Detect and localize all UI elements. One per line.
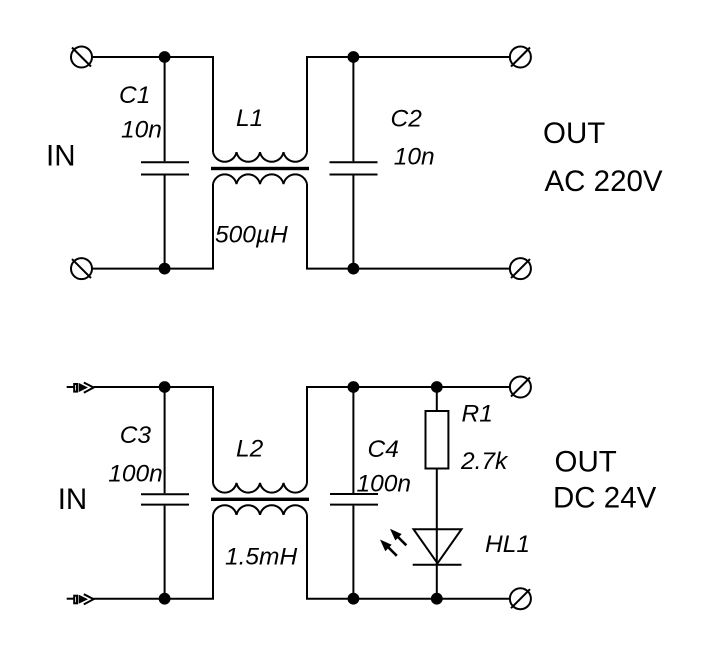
LED HL1	[413, 529, 462, 565]
junction node	[159, 51, 171, 63]
wire	[92, 57, 213, 152]
svg-text:10n: 10n	[394, 143, 435, 170]
svg-text:OUT: OUT	[555, 446, 617, 479]
svg-text:100n: 100n	[108, 461, 163, 488]
wire	[92, 184, 213, 269]
wire	[307, 57, 510, 152]
terminal XT3 bottom-left	[71, 258, 92, 279]
wire	[94, 387, 213, 483]
wire	[307, 387, 510, 483]
junction node	[159, 593, 171, 605]
svg-text:DC 24V: DC 24V	[553, 482, 657, 515]
LED emission arrow 1	[380, 540, 397, 556]
inductor L1 winding 1	[213, 152, 307, 162]
inductor L2 winding 2	[213, 505, 307, 515]
wire	[307, 184, 510, 269]
svg-text:IN: IN	[58, 483, 87, 516]
capacitor C3	[141, 387, 189, 599]
terminal XT2 top-right	[510, 47, 531, 68]
svg-text:10n: 10n	[121, 116, 162, 143]
svg-text:100n: 100n	[357, 471, 412, 498]
junction node	[348, 51, 360, 63]
resistor R1	[426, 387, 449, 599]
junction node	[348, 381, 360, 393]
wire	[307, 515, 510, 599]
terminal XT5 top-right	[510, 377, 531, 398]
svg-text:L2: L2	[236, 436, 264, 463]
junction node	[159, 381, 171, 393]
capacitor C2	[330, 57, 378, 269]
svg-text:AC 220V: AC 220V	[545, 165, 663, 198]
inductor L1 core	[211, 167, 309, 170]
junction node	[431, 593, 443, 605]
svg-text:R1: R1	[462, 401, 493, 428]
svg-text:HL1: HL1	[485, 531, 530, 558]
junction node	[159, 263, 171, 275]
connector pin X2 bottom-left	[67, 594, 94, 604]
inductor L2 core	[211, 498, 309, 501]
svg-text:C3: C3	[120, 422, 152, 449]
capacitor C4	[330, 387, 378, 599]
svg-text:C2: C2	[391, 105, 423, 132]
junction node	[348, 263, 360, 275]
junction node	[431, 381, 443, 393]
wire	[94, 515, 213, 599]
svg-text:C1: C1	[119, 82, 150, 109]
junction node	[348, 593, 360, 605]
capacitor C1	[141, 57, 189, 269]
inductor L2 winding 1	[213, 483, 307, 493]
inductor L1 winding 2	[213, 174, 307, 184]
LED emission arrow 2	[390, 529, 406, 546]
svg-text:L1: L1	[236, 105, 263, 132]
terminal XT6 bottom-right	[510, 588, 531, 609]
terminal XT4 bottom-right	[510, 258, 531, 279]
svg-text:C4: C4	[368, 436, 399, 463]
svg-text:1.5mH: 1.5mH	[225, 544, 297, 571]
svg-text:OUT: OUT	[543, 117, 605, 150]
svg-text:2.7k: 2.7k	[460, 448, 509, 475]
terminal XT1 top-left	[71, 47, 92, 68]
svg-text:IN: IN	[46, 140, 76, 173]
svg-text:500µH: 500µH	[215, 222, 288, 249]
connector pin X1 top-left	[67, 383, 94, 393]
